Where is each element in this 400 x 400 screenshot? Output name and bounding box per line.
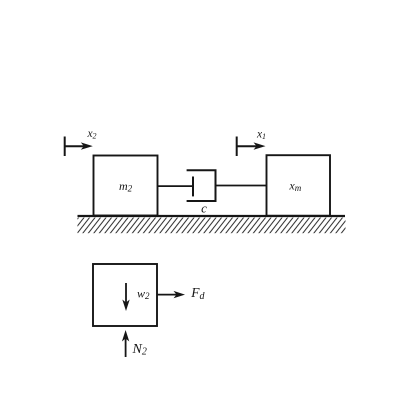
mass m2 [94,156,158,216]
normal force N2 [122,330,147,358]
ground [78,216,346,233]
damper piston plate [192,177,194,197]
svg-text:x1: x1 [256,128,266,141]
ground line [78,215,346,217]
svg-text:c: c [201,201,207,216]
reference arrow x2 [65,128,97,156]
wire: rod from m2 to piston [158,185,194,187]
wire: rod from cylinder to xm [216,185,267,187]
damper cylinder [187,170,216,201]
ground hatching [78,218,346,234]
svg-text:N2: N2 [132,342,147,358]
svg-text:Fd: Fd [190,285,205,302]
mass xm [267,155,331,216]
damper force Fd [158,285,206,302]
reference arrow x1 [237,128,266,156]
svg-text:x2: x2 [86,128,96,141]
damper c [158,170,267,215]
free body box [93,264,157,326]
weight force w2 [122,283,150,311]
